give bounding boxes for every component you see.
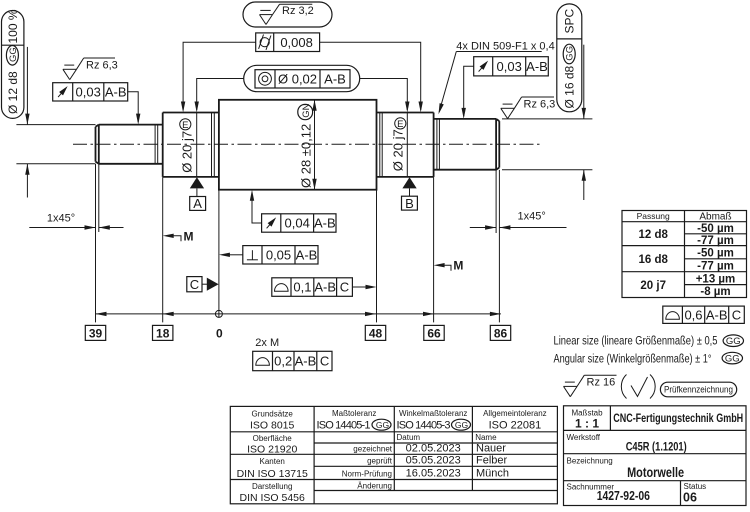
label Ø20 j7 E right [391,118,406,171]
label stadium Ø12 d8 GG 100% [2,9,24,118]
FCF profile 0,2 A-B C [253,351,332,370]
svg-text:ISO 22081: ISO 22081 [489,420,542,432]
FCF concentricity stadium Ø0,02 A-B [244,65,360,91]
svg-text:C45R (1.1201): C45R (1.1201) [626,440,687,454]
svg-text:18: 18 [156,327,170,341]
svg-text:DIN ISO 5456: DIN ISO 5456 [240,492,306,504]
svg-text:GG: GG [8,47,19,62]
svg-text:C: C [340,280,349,295]
svg-text:16.05.2023: 16.05.2023 [406,468,461,480]
svg-text:GG: GG [726,336,741,347]
svg-text:Passung: Passung [637,211,670,221]
shaft Ø16 stub outline [434,119,500,170]
FCF runout 0,03 A-B right [462,57,549,119]
undercut at Ø20 left section right end [211,113,213,177]
dimension Ø28 internal [298,100,317,190]
svg-text:ISO 14405-1: ISO 14405-1 [317,420,371,432]
svg-text:0,05: 0,05 [266,248,291,263]
svg-text:Ø 0,02: Ø 0,02 [278,71,317,86]
measure mark M right [434,263,445,267]
FCF cylindricity 0,008 [256,33,320,52]
datum A [190,177,204,188]
svg-text:-50 µm: -50 µm [697,248,734,260]
FCF perpendicularity 0,05 A-B [219,246,318,264]
surface finish Rz 6,3 right [501,97,554,119]
svg-text:C: C [320,354,329,369]
datum B dimension line through Ø20 right [406,113,408,177]
svg-text:-8 µm: -8 µm [700,286,730,298]
svg-text:C: C [732,307,741,322]
datum C [187,277,202,292]
title block left part [230,406,557,504]
svg-text:Abmaß: Abmaß [699,212,731,223]
svg-text:Ø 20 j7: Ø 20 j7 [180,131,195,173]
svg-text:Maßtoleranz: Maßtoleranz [332,409,376,418]
svg-text:A-B: A-B [526,59,548,74]
svg-text:Änderung: Änderung [357,482,392,491]
svg-text:Prüfkennzeichnung: Prüfkennzeichnung [664,385,733,396]
dimension box 86 [490,325,510,340]
svg-text:0,6: 0,6 [684,307,702,322]
svg-text:Kanten: Kanten [260,457,285,466]
FCF profile 0,1 A-B C [272,278,377,297]
svg-text:Allgemeintoleranz: Allgemeintoleranz [483,409,547,418]
svg-text:1427-92-06: 1427-92-06 [597,489,650,503]
datum A dimension line through Ø20 left [196,113,198,177]
svg-text:Rz 6,3: Rz 6,3 [86,59,118,71]
svg-text:Felber: Felber [476,455,508,467]
stadium Pruefkennzeichnung [660,382,736,397]
svg-text:E: E [182,120,188,131]
undercut at Ø20 right section left end [379,113,381,177]
svg-text:Ø 16 d8: Ø 16 d8 [563,65,577,108]
svg-text:GN: GN [301,103,312,117]
svg-text:Norm-Prüfung: Norm-Prüfung [342,470,392,479]
svg-text:0,1: 0,1 [293,280,311,295]
cylindricity leader right [320,42,421,110]
svg-text:0,03: 0,03 [497,59,522,74]
svg-text:+13 µm: +13 µm [696,273,736,285]
dimension Ø16 vertical right [502,45,592,200]
concentricity leader right [360,79,408,110]
svg-text:20 j7: 20 j7 [640,280,666,292]
svg-text:A-B: A-B [706,307,728,322]
svg-text:Grundsätze: Grundsätze [252,409,294,418]
svg-text:86: 86 [494,327,508,341]
svg-text:2x M: 2x M [255,337,279,349]
dimension box 18 [153,325,173,340]
svg-text:C: C [190,277,199,292]
svg-text:Werkstoff: Werkstoff [567,433,601,442]
svg-text:ISO 21920: ISO 21920 [247,443,297,455]
svg-text:Ø 12 d8: Ø 12 d8 [6,71,20,114]
svg-text:A-B: A-B [324,71,346,86]
svg-text:Winkelmaßtoleranz: Winkelmaßtoleranz [399,409,467,418]
svg-text:100 %: 100 % [6,9,20,43]
tolerance table Passung/Abmass [622,211,747,299]
svg-text:A-B: A-B [105,85,127,100]
svg-text:Darstellung: Darstellung [252,482,292,491]
svg-text:1x45°: 1x45° [518,210,546,222]
datum B [402,177,416,188]
svg-text:GG: GG [725,353,740,364]
cylindricity leader left [183,42,256,110]
svg-text:02.05.2023: 02.05.2023 [406,443,461,455]
svg-text:Bezeichnung: Bezeichnung [567,457,613,466]
svg-text:Ø 28 ±0,12: Ø 28 ±0,12 [299,124,314,188]
svg-text:48: 48 [369,327,383,341]
shaft Ø20 right section outline [377,113,434,177]
svg-text:ISO 14405-3: ISO 14405-3 [397,420,451,432]
svg-text:1x45°: 1x45° [47,212,75,224]
FCF runout 0,04 A-B [250,190,336,233]
label Ø20 j7 E left [180,119,195,173]
svg-text:Datum: Datum [397,433,421,442]
svg-text:A-B: A-B [295,354,317,369]
concentricity leader left [197,79,244,110]
svg-text:Münch: Münch [476,468,509,480]
svg-text:66: 66 [427,327,441,341]
svg-text:05.05.2023: 05.05.2023 [406,455,461,467]
svg-text:4x DIN 509-F1 x 0,4: 4x DIN 509-F1 x 0,4 [456,40,554,52]
svg-text:0,03: 0,03 [76,85,101,100]
svg-text:A-B: A-B [314,216,336,231]
svg-text:GG: GG [565,46,576,61]
svg-text:39: 39 [89,327,103,341]
svg-text:ISO 8015: ISO 8015 [250,419,295,431]
svg-text:E: E [397,119,403,130]
dimension box 66 [424,325,444,340]
FCF runout 0,03 A-B left [53,83,141,125]
svg-text:GG: GG [376,420,389,430]
svg-text:-50 µm: -50 µm [697,223,734,235]
shaft Ø28 centre section outline [219,100,377,190]
measure mark M left [163,234,174,238]
svg-text:Nauer: Nauer [476,443,506,455]
svg-text:-77 µm: -77 µm [697,260,734,272]
svg-text:CNC-Fertigungstechnik GmbH: CNC-Fertigungstechnik GmbH [613,411,743,425]
general surface finish Rz 16 [564,375,617,397]
svg-text:gezeichnet: gezeichnet [353,445,392,454]
svg-text:0,2: 0,2 [274,354,292,369]
FCF profile 0,6 A-B C general [663,306,745,323]
svg-text:Linear size (lineare Größenmaß: Linear size (lineare Größenmaße) ± 0,5 [554,334,718,348]
svg-text:Name: Name [475,433,497,442]
svg-text:Oberfläche: Oberfläche [253,434,293,443]
undercut at Ø12 right end [154,125,156,164]
svg-text:A-B: A-B [296,248,318,263]
dimension Ø12 vertical [16,47,95,198]
svg-text:DIN ISO 13715: DIN ISO 13715 [237,468,308,480]
svg-text:06: 06 [683,490,697,504]
svg-text:16 d8: 16 d8 [638,254,668,266]
svg-text:SPC: SPC [563,8,577,33]
undercut at Ø16 left end [436,119,438,170]
label stadium SPC Ø16 d8 GG [557,4,582,112]
svg-text:Angular size (Winkelgrößenmaße: Angular size (Winkelgrößenmaße) ± 1° [554,351,712,365]
title block right part [564,406,747,506]
svg-text:1 : 1: 1 : 1 [575,417,599,431]
stadium Rz 3,2 [243,2,332,27]
svg-text:-77 µm: -77 µm [697,235,734,247]
surface finish Rz 6,3 left [63,58,115,80]
svg-text:Ø 20 j7: Ø 20 j7 [391,129,406,171]
svg-text:A: A [193,196,202,211]
svg-text:0,04: 0,04 [285,216,310,231]
dimension box 39 [85,325,105,340]
extension lines to baseline dimension [96,164,500,322]
svg-text:Rz 3,2: Rz 3,2 [282,5,314,17]
svg-text:geprüft: geprüft [367,457,393,466]
svg-text:GG: GG [455,420,468,430]
svg-text:Motorwelle: Motorwelle [627,464,684,480]
svg-text:A-B: A-B [314,280,336,295]
svg-text:M: M [184,229,194,243]
svg-text:0,008: 0,008 [280,35,313,50]
shaft Ø20 left section outline [163,113,219,177]
svg-text:M: M [453,259,463,273]
svg-text:12 d8: 12 d8 [638,229,668,241]
shaft Ø12 stub outline [96,125,163,164]
svg-text:0: 0 [216,327,223,341]
svg-text:Rz 6,3: Rz 6,3 [524,98,556,110]
dimension box 48 [365,325,385,340]
basic symbol in parentheses [621,375,626,399]
svg-text:B: B [405,196,414,211]
centerline [73,143,541,145]
svg-text:Rz 16: Rz 16 [587,376,616,388]
baseline dimension line with origin [96,313,501,315]
